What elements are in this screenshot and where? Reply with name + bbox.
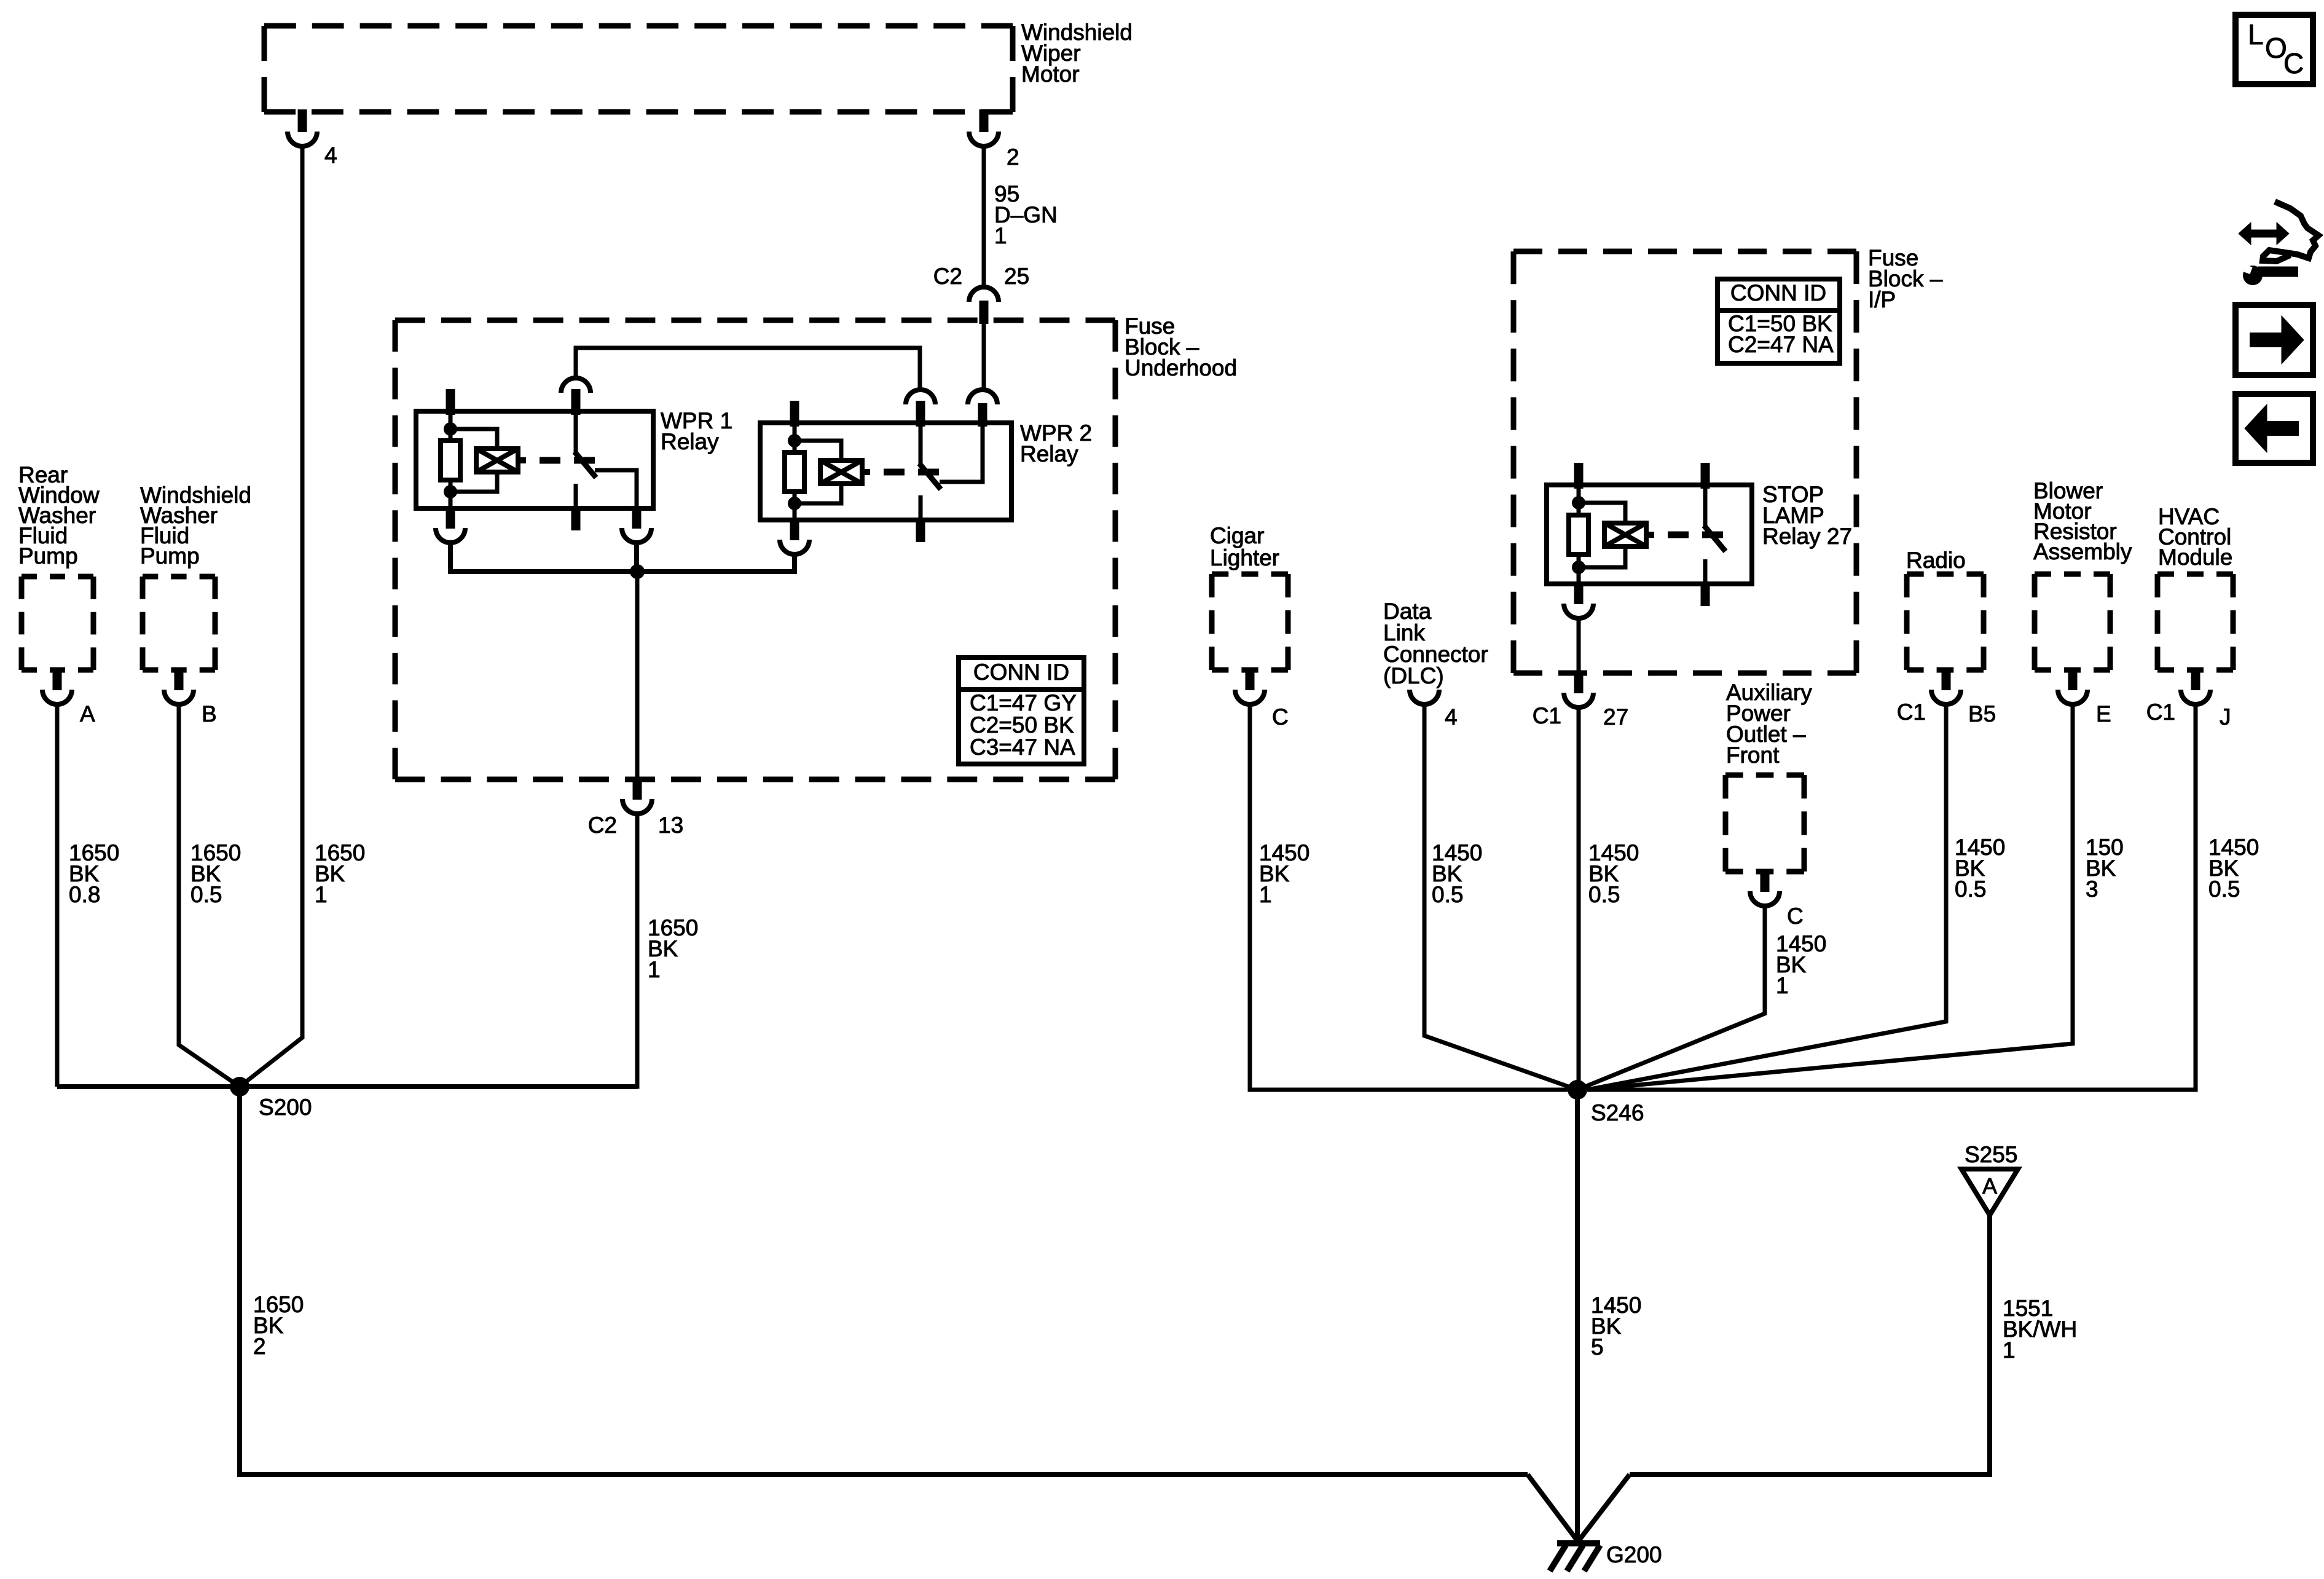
svg-text:0.5: 0.5: [190, 882, 222, 907]
connector C1-J of HVAC module: [2191, 667, 2200, 690]
dashed box: Auxiliary Power Outlet - Front: [1725, 773, 1804, 778]
connector B of windshield washer pump: [175, 667, 184, 690]
wire WPR1 coil low to junction: [450, 543, 635, 572]
wire link WPR1 switch to WPR2 switch (inside fuse block): [576, 348, 920, 390]
connector STOP LAMP relay coil low pin: [1574, 581, 1584, 604]
svg-text:C: C: [1787, 904, 1804, 929]
svg-text:G200: G200: [1606, 1542, 1662, 1567]
svg-text:Pump: Pump: [18, 543, 78, 569]
icon adjustable (double arrow and wrench): [2239, 222, 2251, 245]
connector dome above WPR2 switch pin: [906, 390, 935, 404]
dashed box: Radio: [1907, 572, 1984, 577]
svg-text:A: A: [1982, 1173, 1997, 1199]
svg-text:B: B: [202, 701, 217, 726]
splice symbol S255 triangle: [1961, 1169, 2018, 1215]
connector C2 pin 25 into Fuse Block Underhood: [969, 287, 999, 302]
svg-text:Pump: Pump: [140, 543, 200, 569]
ground symbol G200: [1557, 1540, 1600, 1546]
svg-text:Relay 27: Relay 27: [1762, 524, 1852, 549]
svg-text:A: A: [80, 701, 95, 726]
svg-text:3: 3: [2086, 876, 2098, 902]
svg-text:C2=50 BK: C2=50 BK: [970, 712, 1074, 738]
stub WPR2 aux top pin: [978, 403, 987, 427]
dashed box: Windshield Wiper Motor: [264, 23, 1013, 29]
svg-text:Cigar: Cigar: [1210, 523, 1264, 548]
connector A of rear washer pump: [53, 667, 62, 690]
wire ground bus V-notch at G200: [1528, 1475, 1578, 1542]
svg-text:S255: S255: [1965, 1142, 2017, 1167]
dashed box: Blower Motor Resistor Assembly: [2035, 572, 2110, 577]
svg-text:Motor: Motor: [1021, 61, 1080, 87]
svg-text:CONN ID: CONN ID: [1730, 280, 1826, 305]
svg-text:1: 1: [2003, 1337, 2016, 1363]
wire WPR1 switch output to junction: [634, 543, 639, 572]
connector WPR2 coil low pin: [790, 518, 799, 540]
svg-text:S200: S200: [259, 1095, 312, 1120]
svg-text:0.5: 0.5: [1955, 876, 1986, 902]
svg-text:C1: C1: [2146, 699, 2175, 725]
icon LOC box: [2236, 15, 2313, 84]
svg-text:C2: C2: [588, 813, 617, 838]
svg-text:C2=47 NA: C2=47 NA: [1728, 332, 1834, 357]
svg-text:1: 1: [1259, 882, 1272, 907]
svg-text:C1: C1: [1897, 699, 1926, 725]
svg-text:5: 5: [1591, 1334, 1604, 1360]
wire S246 to G200 (1450 BK 5): [1575, 1090, 1580, 1542]
connector pin 4 of Windshield Wiper Motor: [298, 109, 307, 132]
svg-text:Radio: Radio: [1906, 548, 1966, 573]
svg-text:B5: B5: [1968, 701, 1996, 726]
svg-text:0.8: 0.8: [69, 882, 100, 907]
wire radio to S246 (1450 BK 0.5): [1587, 704, 1946, 1090]
junction dot below WPR1: [630, 564, 645, 579]
wire S255 to ground bus (1551 BK/WH 1): [1630, 1215, 1990, 1475]
svg-text:C3=47 NA: C3=47 NA: [970, 734, 1075, 760]
wire C1-27 to S246 (1450 BK 0.5): [1577, 707, 1581, 1090]
wire cigar lighter to S246 (1450 BK 1): [1250, 704, 1568, 1090]
connector C of aux power outlet: [1761, 869, 1770, 892]
svg-text:Module: Module: [2158, 545, 2232, 570]
wire A to S200 bus (1650 BK 0.8): [55, 704, 60, 1087]
svg-text:E: E: [2096, 701, 2111, 726]
svg-text:Relay: Relay: [661, 429, 719, 454]
svg-text:Relay: Relay: [1020, 441, 1078, 467]
svg-text:4: 4: [1445, 704, 1458, 730]
connector WPR1 coil low pin: [446, 506, 455, 529]
svg-text:Front: Front: [1726, 742, 1780, 768]
dashed box: Fuse Block - I/P: [1513, 249, 1856, 254]
svg-text:1: 1: [1776, 973, 1789, 998]
svg-text:Underhood: Underhood: [1125, 355, 1237, 380]
splice S246 dot: [1568, 1080, 1587, 1100]
svg-text:C2: C2: [933, 264, 962, 289]
wire junction down to C2-13: [635, 572, 640, 777]
wire B to S200 (1650 BK 0.5): [179, 704, 240, 1087]
icon left arrow box: [2236, 394, 2313, 463]
wire blower resistor to S246 (150 BK 3): [1587, 704, 2073, 1090]
relay STOP LAMP Relay 27 body: [1547, 485, 1752, 584]
dashed box: HVAC Control Module: [2157, 572, 2233, 577]
svg-text:2: 2: [253, 1334, 266, 1359]
connector WPR1 switch output pin: [632, 506, 642, 529]
wire junction to WPR2 coil low: [637, 554, 795, 572]
connector C1 pin 27 out of Fuse Block I/P: [1574, 671, 1584, 693]
wire HVAC module to S246 (1450 BK 0.5): [1587, 704, 2196, 1090]
svg-text:J: J: [2220, 704, 2231, 730]
svg-text:27: 27: [1603, 704, 1628, 730]
dashed box: Rear Window Washer Fluid Pump: [22, 574, 93, 580]
splice S200 dot: [230, 1077, 249, 1097]
svg-text:C: C: [1272, 704, 1289, 730]
svg-text:1: 1: [994, 223, 1007, 248]
wire DLC to S246 (1450 BK 0.5): [1424, 704, 1577, 1090]
svg-text:C1=47 GY: C1=47 GY: [970, 690, 1077, 715]
connector dome above WPR1 switch pin: [561, 378, 591, 393]
wire S200 to ground bus bottom (1650 BK 2): [240, 1087, 1528, 1475]
svg-text:0.5: 0.5: [2208, 876, 2240, 902]
wire pin2 to C2-25 (95 D-GN 1): [982, 146, 986, 286]
dashed box: Fuse Block - Underhood: [395, 318, 1115, 323]
svg-text:0.5: 0.5: [1588, 882, 1620, 907]
dashed box: Cigar Lighter: [1212, 572, 1288, 577]
svg-text:C: C: [2283, 47, 2304, 79]
svg-text:13: 13: [658, 813, 683, 838]
svg-text:4: 4: [324, 143, 337, 168]
wire C2-25 to WPR2 relay: [982, 324, 986, 390]
table CONN ID Fuse Block I/P: [1717, 279, 1840, 363]
connector dome above WPR2 aux pin: [968, 390, 997, 404]
connector pin 2 of Windshield Wiper Motor: [979, 109, 989, 132]
svg-text:1: 1: [648, 957, 661, 982]
svg-text:S246: S246: [1591, 1100, 1644, 1125]
connector C of cigar lighter: [1246, 667, 1255, 690]
connector E of blower resistor: [2068, 667, 2078, 690]
connector C2 pin 13 out of Fuse Block Underhood: [633, 777, 642, 800]
connector C1-B5 of radio: [1942, 667, 1951, 690]
wire S200 ground bus: [57, 1084, 637, 1089]
svg-text:2: 2: [1007, 144, 1019, 170]
connector pin 4 of DLC: [1410, 690, 1439, 704]
svg-text:(DLC): (DLC): [1383, 663, 1444, 688]
relay WPR2 body: [760, 423, 1011, 520]
wire pin4 to S200 (1650 BK 1): [240, 146, 302, 1087]
wire aux outlet to S246 (1450 BK 1): [1577, 906, 1765, 1090]
table CONN ID Fuse Block Underhood: [959, 658, 1084, 764]
wire C2-13 to S200 bus (1650 BK 1): [240, 814, 637, 1087]
svg-text:C1: C1: [1533, 703, 1561, 728]
relay WPR1 body: [416, 411, 653, 508]
svg-text:Assembly: Assembly: [2033, 539, 2132, 564]
svg-text:25: 25: [1004, 264, 1029, 289]
svg-text:Lighter: Lighter: [1210, 545, 1279, 570]
svg-text:0.5: 0.5: [1432, 882, 1463, 907]
svg-text:CONN ID: CONN ID: [973, 660, 1069, 685]
wire stop lamp relay to C1-27: [1577, 618, 1581, 671]
svg-text:I/P: I/P: [1868, 287, 1896, 312]
wire WPR2 blade to aux pin (internal L): [940, 423, 983, 482]
dashed box: Windshield Washer Fluid Pump: [143, 574, 215, 580]
svg-text:L: L: [2248, 18, 2264, 50]
svg-text:1: 1: [315, 882, 328, 907]
icon right arrow box: [2236, 305, 2313, 375]
